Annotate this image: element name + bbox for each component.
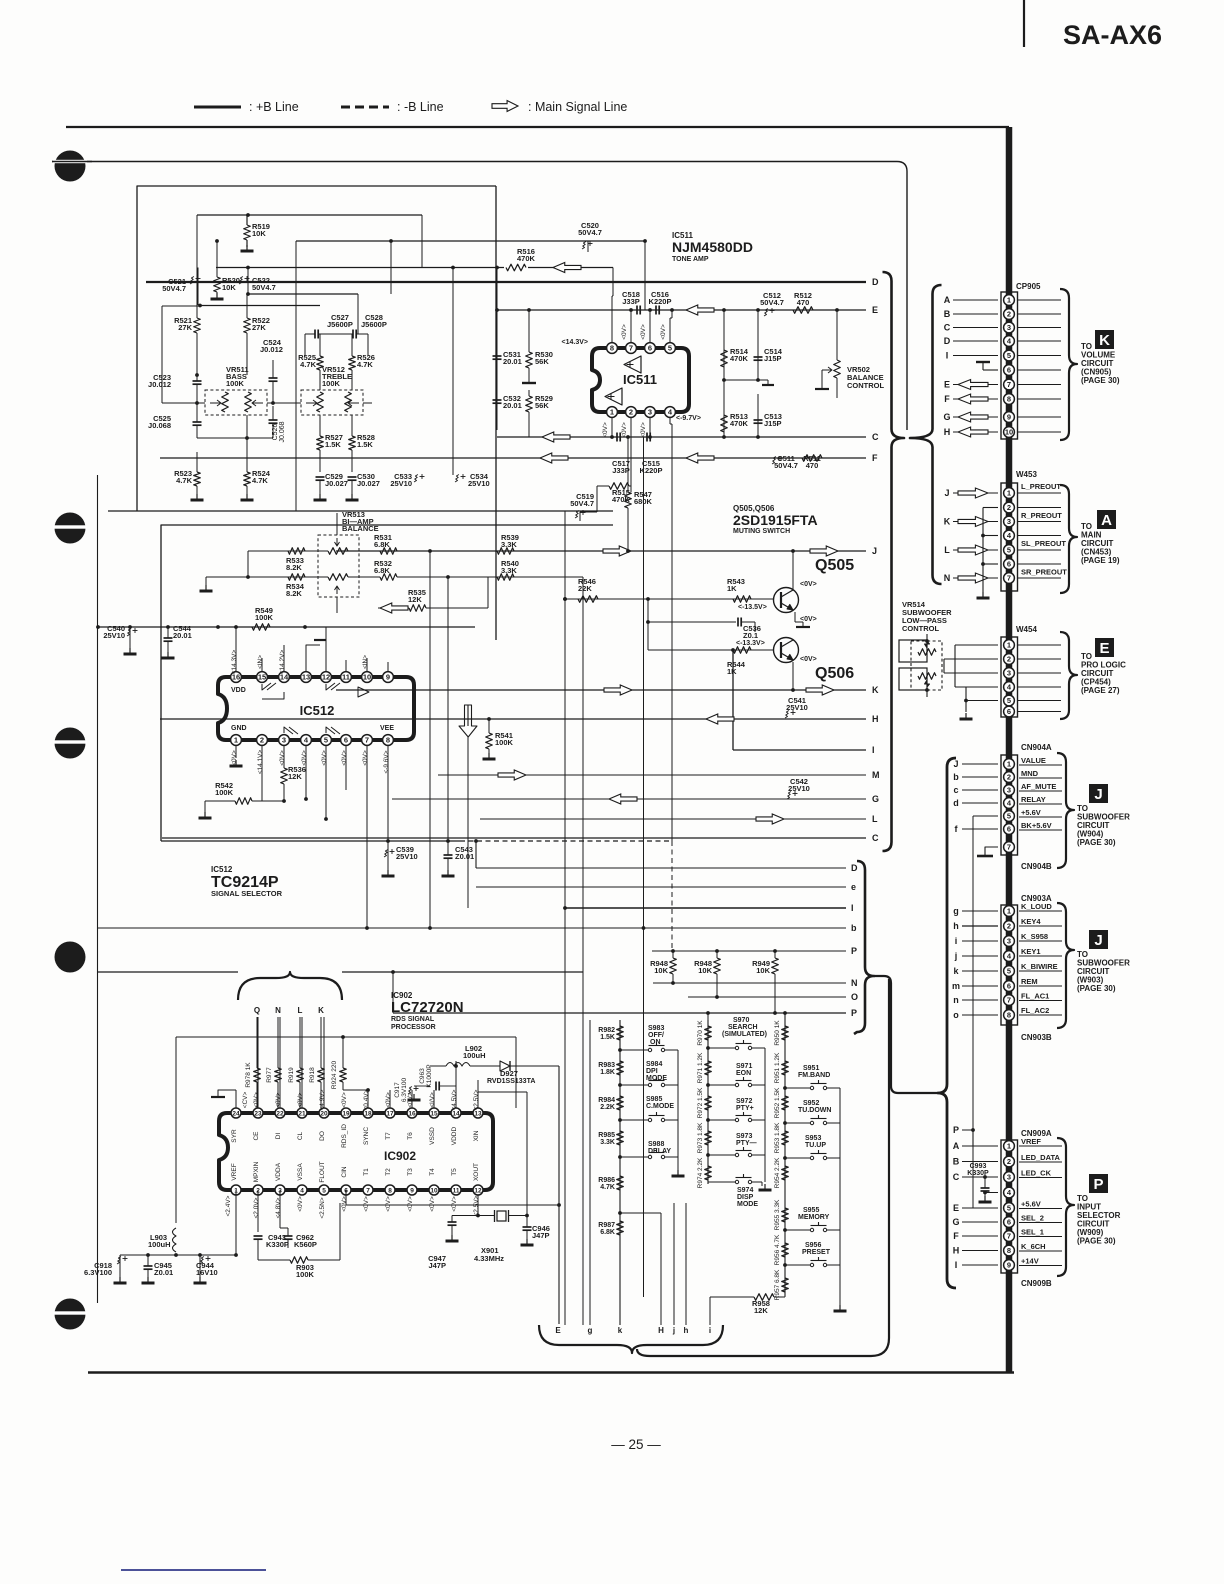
svg-text:5: 5: [322, 1187, 326, 1194]
rds frame QNLK brace: [238, 972, 342, 1000]
svg-text:<-9.7V>: <-9.7V>: [676, 415, 701, 422]
svg-text:Z0.01: Z0.01: [455, 852, 474, 861]
resistor R974: [705, 1166, 712, 1180]
IC512 pin 15: [257, 672, 268, 683]
IC512 pin risers bottom: [235, 745, 237, 758]
wire MPXIN riser: [257, 1190, 259, 1232]
svg-text:2SD1915FTA: 2SD1915FTA: [733, 512, 818, 528]
svg-text:1.5K: 1.5K: [357, 440, 373, 449]
connector CP905 pin 5: [1004, 350, 1015, 361]
svg-text:470: 470: [806, 461, 819, 470]
column A switch rail: [677, 1050, 679, 1157]
svg-text:CL: CL: [297, 1131, 304, 1140]
connector CN904A pin 5: [1004, 811, 1015, 822]
IC902 pin 20: [319, 1108, 329, 1118]
svg-text:100uH: 100uH: [148, 1240, 171, 1249]
svg-text:7: 7: [366, 1187, 370, 1194]
svg-text:I: I: [851, 903, 854, 913]
wire bracket to lower bus: [874, 976, 938, 1093]
registration mark 2: [55, 513, 86, 544]
IC902 pin 17: [385, 1108, 395, 1118]
W453 pin 7 wire right: [1017, 577, 1061, 579]
resistor R953: [782, 1131, 789, 1145]
svg-text:R983: R983: [598, 1062, 615, 1069]
net O wire row lower: [688, 996, 846, 998]
svg-text:<0V>: <0V>: [362, 750, 369, 766]
IC902 pin 19: [341, 1108, 351, 1118]
bi-amp left ground: [247, 551, 249, 577]
svg-text:6: 6: [1007, 707, 1011, 716]
svg-text:S974: S974: [737, 1187, 753, 1194]
signal arrows on rows: [542, 432, 570, 442]
connector CN909A pin 1: [1004, 1141, 1015, 1152]
svg-text:J: J: [1094, 932, 1102, 949]
svg-text:S951: S951: [803, 1065, 819, 1072]
svg-text:J0.027: J0.027: [357, 479, 380, 488]
svg-text:T5: T5: [451, 1168, 458, 1176]
svg-text:<0V>: <0V>: [800, 656, 817, 663]
net E wire row: [497, 309, 866, 311]
svg-text:25V10: 25V10: [390, 479, 412, 488]
selector section frame: [161, 525, 613, 841]
connector CN909A pin 6: [1004, 1217, 1015, 1228]
svg-text:K_6CH: K_6CH: [1021, 1242, 1046, 1251]
IC902 pin 18: [363, 1108, 373, 1118]
svg-text:8.2K: 8.2K: [286, 589, 302, 598]
riser i: [709, 1297, 711, 1325]
destination J block 1: [1089, 784, 1108, 803]
IC512 pin 13: [301, 672, 312, 683]
svg-text:DELAY: DELAY: [648, 1148, 671, 1155]
diode D927: [500, 1061, 510, 1071]
svg-text:<0V>: <0V>: [341, 1092, 348, 1108]
IC512 pin 3: [279, 735, 290, 746]
IC902 pin 6: [341, 1185, 351, 1195]
svg-text:<0V>: <0V>: [279, 750, 286, 766]
svg-text:<2.5N>: <2.5N>: [319, 1197, 326, 1219]
svg-text:<2.0V>: <2.0V>: [253, 1197, 260, 1218]
svg-text:T2: T2: [385, 1168, 392, 1176]
svg-text:SYNC: SYNC: [363, 1127, 370, 1145]
IC511 pin 3: [645, 407, 656, 418]
connector W453 pin 2: [1004, 502, 1015, 513]
svg-text:b: b: [851, 923, 857, 933]
svg-text:S983: S983: [648, 1025, 664, 1032]
resistor R970: [705, 1026, 712, 1040]
IC511 pin 2: [626, 407, 637, 418]
connector CN909A pin 9: [1004, 1260, 1015, 1271]
svg-text:R954 2.2K: R954 2.2K: [774, 1157, 781, 1188]
svg-text:D: D: [872, 277, 879, 287]
svg-text:LED_CK: LED_CK: [1021, 1169, 1052, 1178]
svg-text:k: k: [618, 1326, 623, 1335]
svg-text:9: 9: [1007, 413, 1011, 422]
rds section frame bottom brace: [539, 1325, 723, 1353]
IC902 pin 3: [275, 1185, 285, 1195]
svg-text:+5.6V: +5.6V: [1021, 808, 1041, 817]
svg-text:20.01: 20.01: [503, 357, 522, 366]
svg-text:5: 5: [1007, 696, 1011, 705]
svg-text:R985: R985: [598, 1132, 615, 1139]
svg-text:22K: 22K: [578, 584, 592, 593]
svg-text:CN904B: CN904B: [1021, 862, 1052, 871]
svg-text:SL_PREOUT: SL_PREOUT: [1021, 539, 1066, 548]
capacitor C536: [648, 621, 736, 623]
svg-text:Q506: Q506: [815, 665, 854, 682]
net C wire row: [497, 436, 866, 438]
connector CN909A pin 4: [1004, 1187, 1015, 1198]
svg-text:50V4.7: 50V4.7: [252, 283, 276, 292]
resistor R958: [784, 1292, 786, 1297]
selector bus row: [98, 626, 475, 628]
connector W454 pin 6: [1004, 706, 1015, 717]
resistor R972: [705, 1096, 712, 1110]
svg-text:3.3K: 3.3K: [501, 540, 517, 549]
svg-text:G: G: [952, 1217, 959, 1227]
svg-text:<14.1V>: <14.1V>: [257, 750, 264, 775]
svg-text:SIGNAL SELECTOR: SIGNAL SELECTOR: [211, 889, 283, 898]
svg-text:o: o: [953, 1010, 959, 1020]
svg-text:I: I: [955, 1260, 958, 1270]
potentiometer VR513 body: [318, 535, 359, 597]
svg-text:470: 470: [797, 298, 810, 307]
svg-text:K: K: [944, 517, 951, 527]
matrix column C rail: [784, 1013, 786, 1296]
svg-text:: -B Line: : -B Line: [397, 100, 444, 114]
IC511 pin 8: [607, 343, 618, 354]
W454 pin 1 wire right: [1017, 644, 1061, 646]
svg-text:j: j: [954, 951, 958, 961]
svg-text:R955 3.3K: R955 3.3K: [774, 1199, 781, 1230]
svg-text:<4.5V>: <4.5V>: [451, 1089, 458, 1110]
svg-text:9: 9: [410, 1187, 414, 1194]
resistor R523: [194, 472, 201, 486]
svg-text:IC512: IC512: [211, 865, 233, 874]
connector CN904A body: [1001, 755, 1018, 855]
svg-text:5: 5: [1007, 1204, 1011, 1213]
svg-text:DISP: DISP: [737, 1194, 754, 1201]
QNLK riser: [256, 1017, 258, 1068]
svg-text:H: H: [872, 714, 879, 724]
connector CN909A pin 5: [1004, 1203, 1015, 1214]
svg-text:J47P: J47P: [428, 1261, 446, 1270]
svg-text:N: N: [275, 1006, 281, 1015]
net e wire row lower: [476, 886, 846, 888]
svg-text:3: 3: [1007, 1173, 1011, 1182]
resistor R987: [617, 1221, 624, 1235]
svg-text:4.7K: 4.7K: [176, 476, 192, 485]
connector CN904A pin 6: [1004, 824, 1015, 835]
svg-text:TONE AMP: TONE AMP: [672, 256, 709, 263]
svg-text:R951 1.2K: R951 1.2K: [774, 1052, 781, 1083]
svg-text:K: K: [872, 685, 879, 695]
IC512 pin 10: [362, 672, 373, 683]
connector W454 pin 2: [1004, 654, 1015, 665]
connector CP905 body: [1001, 292, 1018, 439]
svg-text:3: 3: [1007, 786, 1011, 795]
svg-text:KEY1: KEY1: [1021, 947, 1041, 956]
VR514 wires: [925, 639, 929, 643]
svg-text:DPI: DPI: [646, 1068, 658, 1075]
svg-text:BK+5.6V: BK+5.6V: [1021, 821, 1052, 830]
connector CP905 pin 2: [1004, 309, 1015, 320]
svg-text:25V10: 25V10: [786, 703, 808, 712]
svg-text:R973 1.8K: R973 1.8K: [697, 1122, 704, 1153]
svg-text:+14V: +14V: [1021, 1257, 1039, 1266]
svg-text:d: d: [953, 798, 959, 808]
svg-text:: Main Signal Line: : Main Signal Line: [528, 100, 627, 114]
svg-text:27K: 27K: [178, 323, 192, 332]
connector W454 pin 3: [1004, 668, 1015, 679]
resistor R973: [705, 1131, 712, 1145]
connector CN904A pin 1: [1004, 759, 1015, 770]
svg-text:24: 24: [232, 1110, 240, 1117]
svg-text:J: J: [944, 488, 949, 498]
svg-text:7: 7: [1007, 1232, 1011, 1241]
svg-text:R956 4.7K: R956 4.7K: [774, 1234, 781, 1265]
svg-text:C993: C993: [970, 1163, 987, 1170]
IC512 pin 4: [301, 735, 312, 746]
svg-text:CP905: CP905: [1016, 282, 1041, 291]
connector CN904A pin 2: [1004, 772, 1015, 783]
svg-text:F: F: [953, 1231, 959, 1241]
long vertical x565: [564, 511, 566, 1325]
svg-text:12K: 12K: [288, 772, 302, 781]
resistor R985: [617, 1131, 624, 1145]
IC512 pin 16: [231, 672, 242, 683]
svg-text:C917: C917: [394, 1082, 401, 1098]
svg-text:470K: 470K: [517, 254, 536, 263]
wire treble top: [304, 334, 306, 356]
connector CN904A pin 3: [1004, 785, 1015, 796]
legend +B line sample: [194, 106, 241, 109]
IC512 pin 8: [383, 735, 394, 746]
svg-text:25V10: 25V10: [468, 479, 490, 488]
svg-text:P: P: [1093, 1176, 1103, 1193]
svg-text:K330P: K330P: [266, 1240, 289, 1249]
bi-amp row 1: [248, 550, 328, 552]
IC902 pin 11: [451, 1185, 461, 1195]
capacitor C532: [493, 399, 502, 401]
svg-text:100K: 100K: [226, 379, 245, 388]
connector CN903A pin 3: [1004, 936, 1015, 947]
svg-text:FLOUT: FLOUT: [319, 1161, 326, 1182]
svg-text:2: 2: [260, 736, 264, 745]
VR514 element 2: [918, 673, 936, 680]
net J wire row: [336, 550, 866, 552]
svg-text:<IN>: <IN>: [257, 655, 264, 669]
wire VR513 riser: [336, 513, 338, 535]
svg-text:T1: T1: [363, 1168, 370, 1176]
svg-text:<CV>: <CV>: [242, 1091, 249, 1108]
bracket grouping rows D-P: [854, 861, 874, 1034]
matrix column A rail: [619, 1020, 621, 1325]
svg-text:F: F: [872, 453, 878, 463]
svg-text:11: 11: [342, 673, 350, 682]
resistor R541: [488, 719, 490, 733]
connector W453 pin 6: [1004, 559, 1015, 570]
svg-text:DI: DI: [275, 1133, 282, 1140]
W454 pin 6 wire right: [1017, 711, 1061, 713]
long vertical x672: [671, 424, 673, 841]
svg-text:8: 8: [388, 1187, 392, 1194]
svg-text:Q505: Q505: [815, 557, 854, 574]
svg-text:<0V>: <0V>: [321, 750, 328, 766]
svg-text:VREF: VREF: [1021, 1137, 1041, 1146]
net F wire row: [160, 457, 866, 459]
crystal X901: [477, 1195, 479, 1216]
net D wire row: [146, 281, 866, 283]
svg-text:<0V>: <0V>: [341, 1196, 348, 1212]
svg-text:m: m: [952, 981, 960, 991]
svg-text:VSSD: VSSD: [429, 1127, 436, 1145]
resistor R534: [288, 574, 305, 581]
svg-text:SEARCH: SEARCH: [728, 1024, 758, 1031]
svg-text:R984: R984: [598, 1097, 615, 1104]
svg-text:PROCESSOR: PROCESSOR: [391, 1024, 436, 1031]
muting base row: [565, 598, 774, 600]
resistor R956: [782, 1243, 789, 1257]
IC902 top pin risers: [235, 1090, 237, 1108]
svg-text:h: h: [953, 921, 959, 931]
svg-text:<I/V>: <I/V>: [429, 1092, 436, 1108]
svg-text:K_LOUD: K_LOUD: [1021, 902, 1052, 911]
svg-text:3: 3: [1007, 517, 1011, 526]
connector W453 pin 7: [1004, 573, 1015, 584]
svg-text:1: 1: [1007, 760, 1011, 769]
net P wire row lower: [393, 1012, 846, 1014]
svg-text:A: A: [944, 295, 951, 305]
brace CN909 right: [1057, 1138, 1074, 1276]
svg-text:S988: S988: [648, 1141, 664, 1148]
net D riser lower: [475, 841, 477, 868]
svg-text:R971 1.2K: R971 1.2K: [697, 1052, 704, 1083]
svg-text:470K: 470K: [730, 354, 749, 363]
svg-text:S972: S972: [736, 1098, 752, 1105]
svg-text:3: 3: [648, 408, 652, 417]
svg-text:VDDA: VDDA: [275, 1162, 282, 1181]
svg-text:6.8K: 6.8K: [374, 540, 390, 549]
svg-text:1: 1: [234, 736, 238, 745]
XIN loop wire: [477, 1092, 479, 1108]
IC511 pin 1: [607, 407, 618, 418]
svg-text:6.3V100: 6.3V100: [84, 1268, 112, 1277]
svg-text:VDDD: VDDD: [451, 1126, 458, 1145]
capacitor C514: [757, 310, 759, 380]
svg-text:OFF/: OFF/: [648, 1032, 664, 1039]
IC512 pin 11: [341, 672, 352, 683]
svg-text:K560P: K560P: [294, 1240, 317, 1249]
svg-text:FL_AC1: FL_AC1: [1021, 992, 1049, 1001]
IC512 pin 14: [279, 672, 290, 683]
connector CN903A pin 8: [1004, 1010, 1015, 1021]
capacitor C529: [316, 476, 325, 478]
tone bus wire top: [197, 214, 422, 216]
svg-text:1K: 1K: [727, 667, 737, 676]
connector W453 pin 1: [1004, 488, 1015, 499]
resistor R986: [617, 1176, 624, 1190]
svg-text:J5600P: J5600P: [361, 320, 387, 329]
IC511 pin risers top: [611, 296, 613, 343]
svg-text:CN909B: CN909B: [1021, 1279, 1052, 1288]
svg-text:J15P: J15P: [764, 354, 782, 363]
svg-text:8: 8: [610, 344, 614, 353]
IC902 pin 14: [451, 1108, 461, 1118]
down signal arrow: [459, 705, 477, 737]
svg-text:<0V>: <0V>: [385, 1092, 392, 1108]
svg-text:100uH: 100uH: [463, 1051, 486, 1060]
svg-text:13: 13: [302, 673, 310, 682]
svg-text:1.5K: 1.5K: [600, 1034, 615, 1041]
svg-text:100K: 100K: [215, 788, 234, 797]
svg-text:22: 22: [276, 1110, 284, 1117]
svg-text:SA-AX6: SA-AX6: [1063, 20, 1162, 50]
big bracket grouping connectors: [938, 758, 956, 1288]
CP905 pin 1 wire right: [1017, 299, 1061, 301]
svg-text:D: D: [851, 863, 858, 873]
svg-text:VALUE: VALUE: [1021, 756, 1046, 765]
svg-text:CONTROL: CONTROL: [902, 624, 939, 633]
tone long verticals: [421, 215, 423, 268]
long vertical x583: [582, 577, 584, 1325]
svg-text:RDS_ID: RDS_ID: [341, 1124, 348, 1148]
svg-text:H: H: [658, 1326, 664, 1335]
svg-text:1.5K: 1.5K: [325, 440, 341, 449]
svg-text:O: O: [851, 992, 858, 1002]
svg-text:LC72720N: LC72720N: [391, 999, 464, 1016]
svg-text:10: 10: [430, 1187, 438, 1194]
bi-amp row 2: [206, 576, 328, 578]
svg-text:27K: 27K: [252, 323, 266, 332]
resistor R949: [774, 951, 776, 958]
svg-text:XOUT: XOUT: [473, 1163, 480, 1181]
connector W454 body: [1001, 637, 1018, 717]
svg-text:11: 11: [453, 1187, 460, 1194]
connector CP905 pin 7: [1004, 379, 1015, 390]
resistor R924: [340, 1068, 347, 1082]
potentiometer VR502: [836, 310, 838, 360]
svg-text:K220P: K220P: [640, 466, 663, 475]
wire y306 to frame: [162, 305, 200, 307]
R514 C514 node: [724, 379, 768, 381]
svg-text:<0V>: <0V>: [407, 1196, 414, 1212]
svg-text:i: i: [955, 936, 958, 946]
svg-text:<14.2V>: <14.2V>: [279, 650, 286, 675]
resistor R948a: [672, 951, 674, 958]
net P riser left: [392, 972, 394, 1013]
connector CN909A pin 3: [1004, 1172, 1015, 1183]
destination E block: [1095, 638, 1114, 657]
registration mark 4: [55, 942, 86, 973]
svg-text:56K: 56K: [535, 357, 549, 366]
svg-text:CONTROL: CONTROL: [847, 381, 884, 390]
matrix column B rail: [707, 1020, 709, 1184]
capacitor C513: [757, 394, 759, 437]
header divider bar: [1023, 0, 1025, 47]
svg-text:10K: 10K: [756, 966, 770, 975]
resistor R520: [216, 241, 218, 277]
svg-text:C.MODE: C.MODE: [646, 1103, 674, 1110]
svg-text:J0.012: J0.012: [148, 380, 171, 389]
svg-text:R972 1.5K: R972 1.5K: [697, 1087, 704, 1118]
IC511 pin 6: [645, 343, 656, 354]
connector CP905 pin 10: [1004, 427, 1015, 438]
svg-text:FL_AC2: FL_AC2: [1021, 1006, 1049, 1015]
registration mark 5: [55, 1299, 86, 1330]
pin4 bend: [669, 417, 671, 424]
IC902 pin 10: [429, 1185, 439, 1195]
svg-text:10: 10: [363, 673, 371, 682]
